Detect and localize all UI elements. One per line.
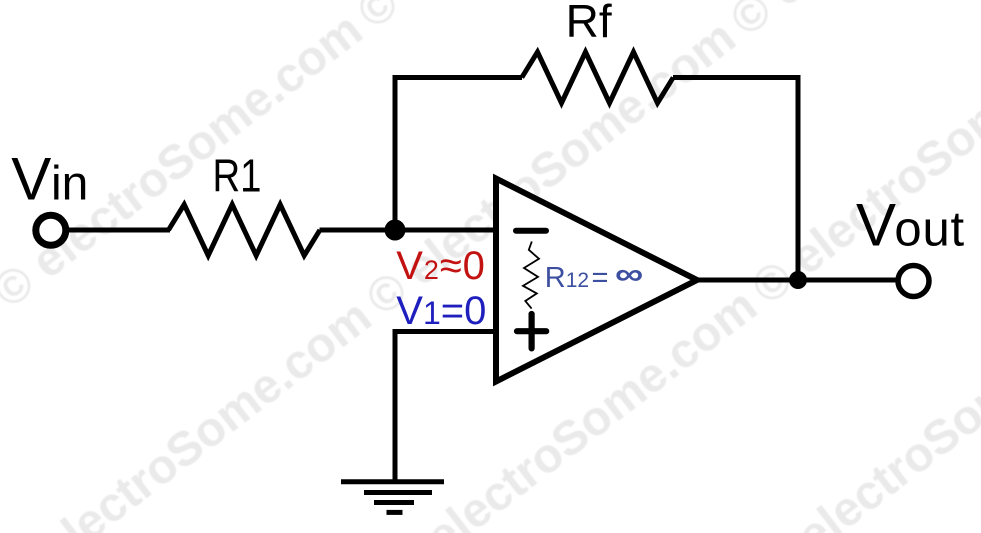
svg-text:V1=0: V1=0: [396, 289, 486, 333]
svg-text:R1: R1: [213, 149, 262, 201]
svg-text:in: in: [51, 158, 88, 211]
svg-text:V2≈0: V2≈0: [396, 244, 486, 288]
resistor Rf: [522, 52, 673, 103]
svg-text:∞: ∞: [615, 258, 643, 291]
ground: [341, 482, 444, 513]
internal resistance zigzag: [523, 242, 539, 309]
svg-text:V: V: [11, 146, 51, 213]
wire output: [697, 278, 897, 283]
op-amp U1: [496, 179, 697, 382]
svg-text:Rf: Rf: [566, 0, 612, 47]
input terminal circle: [36, 215, 66, 245]
svg-text:V: V: [856, 191, 896, 258]
svg-text:out: out: [894, 202, 965, 256]
output junction dot: [789, 271, 807, 289]
output terminal circle: [898, 266, 929, 297]
wire node A up and across to Rf: [395, 78, 522, 231]
wire input to R1: [66, 228, 170, 233]
op-amp minus input symbol: [516, 228, 546, 234]
node A junction dot: [385, 220, 406, 241]
wire non-inverting input to ground: [395, 332, 495, 482]
resistor R1: [169, 205, 320, 256]
wire Rf to output node: [673, 78, 798, 281]
wire R1 to op-amp inverting input: [320, 228, 496, 233]
op-amp plus input symbol: [517, 314, 546, 348]
